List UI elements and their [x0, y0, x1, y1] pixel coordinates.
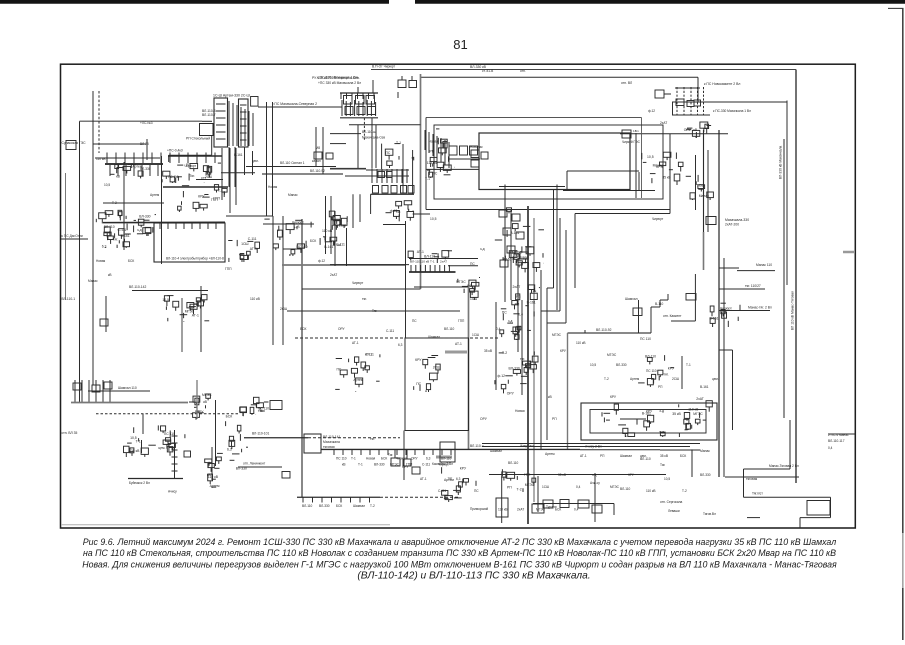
svg-text:0,4: 0,4: [828, 446, 833, 450]
svg-text:ОРУ: ОРУ: [480, 417, 488, 421]
svg-text:АТ-1: АТ-1: [192, 314, 199, 318]
svg-text:Артем: Артем: [210, 484, 220, 488]
wire W63 y311: [287, 310, 460, 312]
bus B18 y333 gray: [568, 332, 652, 334]
wire W15 verticals x229-244: [228, 147, 230, 187]
svg-text:Т-1: Т-1: [136, 440, 141, 444]
svg-text:81: 81: [453, 37, 467, 52]
wire W22a drop from top: [372, 80, 374, 93]
svg-text:110 кВ: 110 кВ: [250, 297, 261, 301]
bus B7d y194: [371, 193, 414, 195]
wire W36 x567 down: [567, 333, 569, 449]
wire W60 x682: [681, 356, 683, 389]
svg-text:Леваши: Леваши: [668, 509, 680, 513]
svg-text:С-111: С-111: [438, 489, 446, 493]
substation cluster S4: [145, 227, 151, 232]
wire W10 to center: [258, 106, 342, 108]
svg-text:тяг.: тяг.: [520, 357, 525, 361]
frame top edge R-out: [426, 117, 642, 119]
wire W7 dashed stub: [98, 91, 100, 153]
svg-text:Манас: Манас: [88, 279, 98, 283]
substation cluster S29 in N1: [623, 428, 628, 433]
svg-text:10,5: 10,5: [430, 217, 437, 221]
bus B17 central vertical gray: [533, 218, 535, 502]
wire W16b verticals: [402, 144, 404, 194]
frame rect R-mid: [434, 125, 663, 199]
svg-text:ВЛ-110-117: ВЛ-110-117: [828, 439, 845, 443]
wire W28 x695 segment: [695, 155, 697, 210]
substation cluster S8 small: [330, 237, 337, 241]
component box right of S28: [270, 401, 282, 410]
substation cluster S12 left edge of frames: [430, 157, 437, 161]
thick gray mark 2: [436, 456, 452, 459]
substation cluster S8b left band: [334, 220, 340, 225]
svg-text:1СШ: 1СШ: [472, 333, 479, 337]
svg-text:РП: РП: [507, 485, 512, 489]
wire W59 y517 label stub: [747, 517, 760, 519]
svg-text:110 кВ: 110 кВ: [576, 341, 586, 345]
substation cluster S21 inside rect: [426, 384, 430, 390]
wire W16e x106: [105, 296, 107, 332]
svg-text:Т-1: Т-1: [425, 177, 430, 181]
svg-text:Артем: Артем: [545, 452, 555, 456]
svg-text:РП: РП: [552, 417, 557, 421]
wire W22b dashed drop: [363, 118, 365, 140]
bus B14 vertical x703: [703, 130, 705, 232]
svg-text:ВЛ-110-92: ВЛ-110-92: [310, 169, 325, 173]
svg-text:Чирюрт: Чирюрт: [352, 281, 364, 285]
svg-text:В-161: В-161: [527, 301, 536, 305]
svg-text:ф.12: ф.12: [318, 259, 325, 263]
svg-text:110 кВ: 110 кВ: [498, 508, 508, 512]
svg-text:10,5: 10,5: [130, 436, 137, 440]
feeder ticks on B11: [340, 93, 342, 99]
svg-text:Артем: Артем: [150, 193, 159, 197]
feeder ticks on B4 B5: [106, 153, 108, 164]
wire stub y179.5: [196, 179, 223, 181]
substation cluster S26 Tarki: [208, 474, 213, 481]
substation cluster S30 right of N1: [684, 419, 689, 424]
bus B1 right main vertical: [795, 70, 797, 484]
svg-text:РП: РП: [658, 385, 663, 389]
wire W44 dashed y414: [96, 413, 238, 415]
svg-text:6,3: 6,3: [456, 477, 461, 481]
svg-text:ПС 110: ПС 110: [640, 337, 651, 341]
frame rect R-in main empty box: [479, 133, 630, 190]
substation cluster S14 right of frames: [707, 192, 714, 198]
wire W61 x638: [638, 300, 640, 333]
svg-text:ПС 110: ПС 110: [646, 369, 657, 373]
svg-text:БСК: БСК: [336, 504, 342, 508]
svg-text:ВЛ-110-4 электробытприбор: ВЛ-110-4 электробытприбор +ВЛ-110-8: [166, 257, 224, 261]
svg-text:ПС: ПС: [412, 319, 417, 323]
wire W12 vertical x124: [123, 162, 125, 250]
svg-text:Чирюрт: Чирюрт: [396, 457, 408, 461]
bus B9 long vertical x302: [301, 219, 303, 497]
svg-text:Шамхал: Шамхал: [620, 454, 632, 458]
component box left of bottoms: [440, 442, 455, 462]
svg-text:10,5: 10,5: [664, 477, 670, 481]
svg-text:2СШ: 2СШ: [339, 224, 346, 228]
svg-text:В-161: В-161: [503, 258, 512, 262]
frame rect N2: [590, 410, 706, 434]
svg-text:МГЭС: МГЭС: [525, 483, 535, 487]
svg-text:Изербаш: Изербаш: [520, 444, 534, 448]
svg-text:ВЛ-330: ВЛ-330: [700, 473, 711, 477]
svg-text:з-д: з-д: [592, 473, 597, 477]
wire W20 y290: [132, 290, 208, 292]
svg-text:Т-2: Т-2: [604, 377, 609, 381]
svg-text:кВ: кВ: [296, 225, 300, 229]
svg-text:ПС: ПС: [474, 489, 479, 493]
svg-text:Т-2: Т-2: [370, 504, 375, 508]
feeder ticks on B24: [302, 497, 304, 502]
component box bottom right: [807, 501, 830, 516]
svg-text:10,5: 10,5: [162, 298, 169, 302]
wire W24 y115: [672, 114, 710, 116]
svg-text:Т-1: Т-1: [396, 141, 401, 145]
svg-text:И8: И8: [316, 146, 320, 150]
svg-text:1Вл: 1Вл: [633, 129, 639, 133]
bus B4 left band: [105, 163, 163, 165]
thick gray mark 1: [445, 351, 467, 354]
svg-text:Манас: Манас: [700, 449, 710, 453]
svg-text:з-д: з-д: [480, 247, 485, 251]
svg-text:Тяг.: Тяг.: [113, 238, 119, 242]
svg-text:С-111: С-111: [365, 353, 374, 357]
cluster below bus at x390: [391, 458, 400, 466]
svg-text:КРУ: КРУ: [415, 358, 422, 362]
svg-text:6,3: 6,3: [398, 343, 403, 347]
svg-text:РП Стекольный: РП Стекольный: [186, 137, 210, 141]
hatch ticks in K1 K2: [216, 103, 226, 105]
wire W38 x695 vertical: [694, 274, 696, 321]
wire W30 y186.5 bus: [499, 186, 565, 188]
transformer column box K2: [239, 99, 249, 147]
component box on W62: [532, 504, 544, 513]
svg-text:ВЛ-110-1: ВЛ-110-1: [62, 297, 76, 301]
svg-text:2СШ: 2СШ: [205, 175, 212, 179]
wire W62 x538 chain: [537, 476, 539, 512]
wire drops left of S9: [315, 127, 317, 166]
svg-text:БСК: БСК: [680, 454, 686, 458]
svg-text:Т-2: Т-2: [517, 487, 522, 491]
wire W31 x505: [504, 185, 506, 303]
bus B16 central vertical dark: [527, 206, 529, 524]
svg-text:2хАТ: 2хАТ: [513, 285, 521, 289]
wire W50 x212 lower: [211, 447, 213, 480]
wire W30c stair top: [567, 170, 639, 172]
bus B21 y478: [128, 478, 183, 480]
substation cluster S23b right: [470, 291, 478, 297]
svg-text:1СШ: 1СШ: [470, 297, 477, 301]
svg-text:кВ: кВ: [342, 463, 346, 467]
substation cluster S22 left of rect: [365, 366, 370, 370]
svg-text:10,5: 10,5: [647, 155, 654, 159]
substation cluster S20: [526, 364, 531, 368]
wire W34 staircase B: [559, 218, 561, 311]
svg-text:Тягов.Вл: Тягов.Вл: [703, 512, 716, 516]
svg-text:РП: РП: [186, 163, 191, 167]
svg-text:ВЛ-110-141: ВЛ-110-141: [323, 435, 340, 439]
svg-text:ПС: ПС: [416, 382, 421, 386]
svg-text:Буйнакск 2 Вл: Буйнакск 2 Вл: [129, 481, 150, 485]
svg-text:0,4: 0,4: [576, 485, 581, 489]
svg-text:ВЛ-110: ВЛ-110: [441, 457, 452, 461]
svg-text:(ВЛ-110-142) и ВЛ-110-113 ПС 3: (ВЛ-110-142) и ВЛ-110-113 ПС 330 кВ Маха…: [357, 571, 590, 582]
svg-text:35 кВ: 35 кВ: [558, 473, 566, 477]
bus B20 Shamkhal gray: [71, 402, 188, 404]
svg-text:ВЛ-330: ВЛ-330: [319, 504, 330, 508]
wire W57 right hook: [789, 420, 791, 469]
bus B8 y222: [103, 221, 225, 223]
svg-text:110 кВ: 110 кВ: [420, 260, 429, 264]
svg-text:2СШ: 2СШ: [280, 307, 287, 311]
svg-text:ГПП: ГПП: [458, 319, 465, 323]
substation cluster S19: [516, 327, 520, 332]
svg-text:Т-2: Т-2: [682, 489, 687, 493]
feeder ticks on RP rect: [159, 223, 161, 229]
component box grid S9: [344, 96, 353, 105]
svg-text:ф.12: ф.12: [648, 109, 655, 113]
svg-text:Т-2: Т-2: [659, 430, 664, 434]
svg-text:МГЭС: МГЭС: [607, 353, 617, 357]
component box stair: [686, 294, 696, 301]
component box x106: [100, 319, 108, 326]
svg-text:Шамхал: Шамхал: [490, 449, 502, 453]
feeder ticks on B23: [333, 449, 335, 455]
substation cluster S25: [206, 394, 211, 398]
svg-text:АТ-1: АТ-1: [455, 342, 462, 346]
svg-text:к ПС Даг.Огни: к ПС Даг.Огни: [62, 234, 83, 238]
svg-text:КРУ: КРУ: [197, 410, 204, 414]
svg-text:отп.: отп.: [520, 69, 526, 73]
frame rect N1: [581, 403, 717, 440]
svg-text:ВЛ-330: ВЛ-330: [616, 363, 627, 367]
svg-text:ВЛ-110: ВЛ-110: [640, 457, 651, 461]
wire W25 y133.7: [620, 133, 728, 135]
wire W23 y88: [675, 87, 700, 89]
svg-text:6,3: 6,3: [467, 284, 472, 288]
svg-text:МГЭС: МГЭС: [693, 412, 703, 416]
wire W45 x143: [142, 414, 144, 434]
component box 2AT: [706, 217, 716, 225]
svg-text:ВЛ-110-92: ВЛ-110-92: [596, 328, 612, 332]
svg-text:В-161: В-161: [710, 316, 719, 320]
svg-text:2хАТ: 2хАТ: [440, 260, 447, 264]
bus group dashed verticals Chirkey: [676, 87, 678, 115]
substation cluster S23 above: [408, 251, 413, 258]
wire W5 far-left vertical: [79, 121, 81, 403]
svg-text:к ПС-330 Махачкала 1 Вл: к ПС-330 Махачкала 1 Вл: [713, 109, 751, 113]
svg-text:В-161: В-161: [324, 245, 333, 249]
wire W52 long bottoms: [482, 443, 700, 445]
svg-text:ПС: ПС: [470, 262, 475, 266]
substation cluster S11 chirkey lower: [705, 124, 709, 128]
svg-text:Чирюрт: Чирюрт: [652, 217, 664, 221]
component boxes under B7c: [378, 172, 385, 178]
component box x184: [184, 451, 191, 457]
svg-text:110 кВ: 110 кВ: [427, 161, 438, 165]
bus B5 left band upper: [168, 155, 222, 157]
bus B23 y449: [321, 448, 580, 450]
svg-text:0,4: 0,4: [496, 327, 501, 331]
wire W30b y190.5: [563, 190, 655, 192]
svg-text:Шамхал: Шамхал: [428, 335, 440, 339]
bus B7e y224.5: [383, 224, 406, 226]
svg-text:з-д: з-д: [659, 409, 664, 413]
component box K3: [251, 97, 258, 107]
bus B3 center lower vertical gray: [468, 287, 470, 449]
wire W14 vertical x147: [146, 139, 148, 160]
svg-text:АТ-1: АТ-1: [417, 250, 424, 254]
wire W43 y391: [88, 390, 150, 392]
bus B19 cluster top center: [409, 271, 456, 273]
wire verticals below B7d: [352, 194, 354, 228]
svg-text:ВЛ-110: ВЛ-110: [508, 461, 519, 465]
wire W2 second top link: [421, 76, 698, 78]
svg-text:С-111: С-111: [248, 237, 257, 241]
substation cluster S10b: [407, 212, 414, 218]
svg-text:6,3: 6,3: [102, 245, 107, 249]
svg-text:6,3: 6,3: [227, 447, 232, 451]
svg-text:Новолак: Новолак: [470, 145, 483, 149]
svg-text:БСК: БСК: [381, 457, 387, 461]
svg-text:тяг. 110/27: тяг. 110/27: [745, 284, 761, 288]
svg-text:ОРУ: ОРУ: [411, 457, 419, 461]
svg-text:ВЛ-110-142: ВЛ-110-142: [129, 285, 146, 289]
svg-text:Приморский: Приморский: [470, 507, 488, 511]
svg-text:ВЛ-110: ВЛ-110: [645, 354, 656, 358]
svg-text:35 кВ: 35 кВ: [131, 449, 140, 453]
svg-text:Ачи-су: Ачи-су: [590, 481, 600, 485]
svg-text:110 кВ: 110 кВ: [646, 489, 656, 493]
component box left end y133: [622, 130, 631, 138]
substation cluster S17: [518, 259, 526, 263]
substation cluster S15 x711-742: [710, 318, 715, 323]
wire W1 top horizontal link: [371, 69, 796, 71]
page right edge rule: [902, 8, 904, 640]
svg-text:ПС: ПС: [502, 310, 507, 314]
bus B24 y497: [297, 496, 380, 498]
svg-text:110 кВ: 110 кВ: [96, 157, 106, 161]
svg-text:Т-2: Т-2: [112, 201, 117, 205]
svg-text:ВЛ-330 кВ Махачкала: ВЛ-330 кВ Махачкала: [779, 146, 783, 179]
wire W18 y224: [263, 223, 314, 225]
wire W28b x708: [707, 150, 709, 232]
bus B7b y168.7: [330, 168, 366, 170]
transformer column box K1: [214, 98, 228, 147]
wire W17b verticals x266 x272 upper: [266, 102, 268, 216]
svg-text:ВЛ-110-7: ВЛ-110-7: [202, 113, 216, 117]
frame rect R-out left-bottom: [425, 118, 427, 210]
svg-text:РУ-110 кВ ПС Махачкала-Сев.: РУ-110 кВ ПС Махачкала-Сев.: [312, 76, 360, 80]
svg-text:2хАТ-200: 2хАТ-200: [725, 223, 739, 227]
component box x304: [304, 434, 321, 453]
svg-text:Манас: Манас: [653, 164, 664, 168]
wire W21 pair x325 x331: [325, 196, 327, 254]
wire W22c left stubs: [330, 133, 361, 135]
wire W17 verticals x273 x283: [272, 216, 274, 345]
wire W6 left vertical x93: [92, 91, 94, 385]
shadow line above bottom border: [61, 524, 390, 526]
svg-text:Т-1: Т-1: [218, 189, 223, 193]
svg-text:1СШ: 1СШ: [241, 242, 248, 246]
figure border frame: [61, 64, 856, 528]
wire W4 left top horizontal: [80, 120, 203, 122]
wire W13 vertical x161: [161, 156, 163, 264]
svg-text:ПС 110: ПС 110: [336, 457, 347, 461]
svg-text:Артем: Артем: [630, 377, 639, 381]
svg-text:С-111: С-111: [336, 242, 345, 246]
svg-text:В-110: В-110: [655, 302, 663, 306]
svg-text:тяг.: тяг.: [258, 409, 263, 413]
bus B7c y176: [345, 175, 409, 177]
svg-text:БСК: БСК: [128, 259, 134, 263]
svg-text:МГЭС: МГЭС: [185, 309, 195, 313]
wire W29 right stubs: [719, 267, 739, 269]
svg-text:КРУ: КРУ: [560, 349, 567, 353]
svg-text:МГЭС: МГЭС: [512, 251, 522, 255]
svg-text:БСК: БСК: [310, 239, 316, 243]
extra ticks S12: [424, 130, 426, 150]
svg-text:РП: РП: [600, 454, 605, 458]
svg-text:С-111: С-111: [118, 228, 127, 232]
svg-text:ВЛ-110: ВЛ-110: [104, 225, 115, 229]
substation cluster S33 botlikh: [647, 358, 652, 362]
wire W16c x405 upper: [405, 221, 407, 338]
substation cluster S13 inside right: [678, 162, 683, 166]
svg-text:ВЛ 110 кВ Манас-Тяговая: ВЛ 110 кВ Манас-Тяговая: [791, 291, 795, 330]
component box on W49: [282, 472, 290, 479]
svg-text:2хАТ: 2хАТ: [517, 508, 524, 512]
svg-text:з-д: з-д: [508, 319, 513, 323]
wire W28c x724: [723, 258, 725, 477]
svg-text:Новая: Новая: [96, 259, 106, 263]
wire W49 y467: [238, 466, 282, 468]
component box x496: [496, 498, 508, 517]
svg-text:МГЭС: МГЭС: [610, 485, 620, 489]
svg-text:Тяг.: Тяг.: [189, 174, 195, 178]
svg-text:ф.12: ф.12: [498, 374, 506, 378]
svg-text:тяг.: тяг.: [370, 437, 375, 441]
svg-text:Чирюрт: Чирюрт: [720, 307, 732, 311]
svg-text:Сулакская ГЭС: Сулакская ГЭС: [62, 141, 87, 145]
svg-text:КРУ: КРУ: [610, 395, 617, 399]
bus B2 center-left vertical gray: [420, 74, 422, 289]
svg-text:цем.: цем.: [252, 159, 259, 163]
svg-text:+ПС 330 кВ Махачкала 2 Вл: +ПС 330 кВ Махачкала 2 Вл: [318, 81, 361, 85]
wire W16 y166: [246, 166, 336, 168]
wire W54 x595: [594, 473, 596, 522]
svg-text:ф.12: ф.12: [390, 209, 398, 213]
substation cluster S31 bottom-left dense: [445, 496, 452, 500]
svg-text:кВ: кВ: [108, 273, 112, 277]
svg-text:РП: РП: [430, 150, 435, 154]
svg-text:Манас: Манас: [288, 193, 298, 197]
svg-text:ОРУ: ОРУ: [402, 465, 410, 469]
substation cluster S34: [385, 149, 393, 155]
svg-text:Тяг.: Тяг.: [388, 453, 393, 457]
bus B7 y174 gray: [262, 173, 343, 175]
wire W40 y264 into S23: [330, 264, 409, 266]
thick gray dash right border: [843, 251, 855, 254]
svg-text:ВЛ-330: ВЛ-330: [509, 366, 520, 370]
wire W26 y102 to right bus: [672, 101, 787, 103]
svg-text:Рис 9.6. Летний максимум 2024: Рис 9.6. Летний максимум 2024 г. Ремонт …: [83, 537, 836, 547]
feeder ticks between columns: [228, 101, 230, 146]
svg-text:Ачису: Ачису: [168, 490, 177, 494]
